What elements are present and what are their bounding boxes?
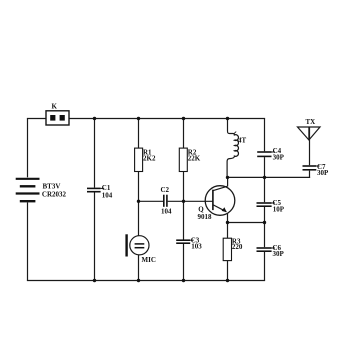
svg-text:30P: 30P [317, 169, 329, 177]
svg-text:10P: 10P [273, 206, 285, 214]
svg-text:2K2: 2K2 [143, 155, 156, 163]
svg-text:30P: 30P [273, 154, 285, 162]
svg-text:BT3V: BT3V [43, 183, 61, 191]
svg-text:104: 104 [161, 207, 172, 215]
svg-text:MIC: MIC [142, 256, 156, 264]
svg-text:104: 104 [102, 191, 113, 199]
svg-text:30P: 30P [273, 250, 285, 258]
svg-text:K: K [52, 102, 58, 110]
svg-text:22K: 22K [188, 155, 201, 163]
svg-text:220: 220 [232, 243, 243, 251]
svg-text:C2: C2 [161, 186, 170, 194]
svg-text:TX: TX [306, 118, 316, 126]
svg-text:CR2032: CR2032 [42, 191, 67, 199]
svg-text:9018: 9018 [198, 213, 213, 221]
svg-text:4T: 4T [238, 136, 247, 144]
svg-text:103: 103 [191, 243, 202, 251]
